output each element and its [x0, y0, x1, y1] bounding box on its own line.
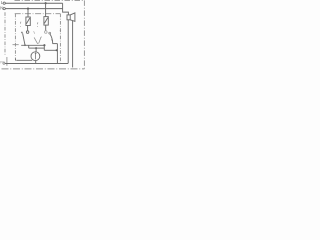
wire: R1 down to contact — [27, 26, 29, 31]
tick bar on left riser — [13, 44, 19, 46]
enclosure bottom dash-dot border — [2, 68, 85, 70]
linkage arrowhead on dash-dot — [60, 30, 61, 32]
node dot on pump feed — [35, 47, 37, 49]
t-mark near R1 — [19, 22, 22, 27]
switch S1 blade — [23, 33, 25, 45]
terminal circle PE — [3, 62, 5, 64]
pump feed wire — [29, 47, 45, 49]
switch S3 blade tip — [49, 32, 51, 34]
bus wire — [21, 44, 44, 46]
inner dash-dot vertical (right) — [59, 14, 61, 63]
enclosure left dash-dot segment — [4, 12, 6, 55]
inner box top dash-dot — [15, 13, 61, 15]
enclosure top dash-dot border — [15, 0, 85, 1]
junction at S1 landing — [24, 44, 26, 46]
contact circle K1 — [26, 31, 29, 34]
wire: N dot down to R1 — [27, 9, 29, 17]
wire: R2 down to contact — [45, 25, 47, 31]
switch S2 faint upper stub — [34, 31, 35, 34]
switch S3 blade — [50, 34, 53, 43]
wire: bus drop to pump feed — [28, 45, 30, 48]
background — [0, 0, 87, 73]
switch S1 blade tip — [21, 32, 23, 34]
terminal circle L — [3, 2, 5, 4]
wire: across to pump left — [16, 59, 32, 61]
L rail wire — [5, 2, 62, 4]
pump arrow — [35, 54, 37, 60]
node dot on N rail — [27, 8, 29, 10]
resistor R2 (rect with diagonal) — [44, 17, 49, 26]
wire: dot down to pump — [35, 48, 37, 52]
wire: S3 landing to right — [52, 43, 57, 45]
wire: pump bottom to PE line — [35, 61, 37, 64]
node dot at join — [56, 49, 58, 51]
wire: cone lead down — [72, 21, 74, 68]
L jog wire to speaker — [63, 3, 69, 15]
terminal circle N — [3, 8, 5, 10]
wire: L dot down to R2 — [45, 3, 47, 16]
switch S2 blade — [34, 37, 38, 44]
wire: speaker to PE line — [67, 20, 69, 64]
switch S3 blade arrowhead — [51, 39, 52, 42]
wire: down to bottom line — [56, 44, 58, 64]
contact circle K2 — [45, 31, 48, 34]
speaker cone — [70, 13, 75, 21]
left riser wire — [15, 59, 18, 61]
pump M1 circle — [31, 52, 40, 61]
enclosure right dash-dot border — [83, 0, 85, 69]
switch S2 arrow — [39, 37, 42, 44]
wire: across to S3 drop — [44, 49, 57, 51]
inner dash-dot vertical (left) — [14, 14, 16, 60]
speaker LS1 box — [67, 15, 70, 20]
node dot on L rail — [45, 2, 47, 4]
wire: bus dot down — [43, 45, 45, 50]
resistor R1 (rect with diagonal) — [26, 17, 31, 26]
N rail wire — [5, 8, 62, 10]
t-mark near R2 — [36, 22, 39, 27]
node dot at bus right end — [43, 44, 45, 46]
PE bottom wire — [5, 63, 68, 65]
